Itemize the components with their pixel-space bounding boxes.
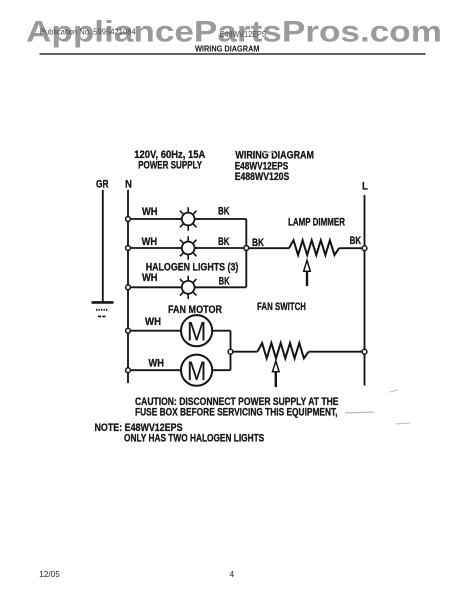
svg-text:GR: GR: [96, 178, 109, 190]
svg-text:12/05: 12/05: [39, 570, 60, 579]
svg-text:E488WV120S: E488WV120S: [235, 171, 290, 183]
wire lamp right bus: [245, 219, 247, 287]
svg-text:N: N: [125, 178, 132, 190]
wire dimmer left: [246, 247, 289, 249]
node motorbus-switch: [228, 349, 233, 354]
resistor fan switch: [257, 343, 308, 358]
node N-motor2: [126, 368, 131, 373]
svg-text:HALOGEN LIGHTS (3): HALOGEN LIGHTS (3): [146, 261, 239, 273]
fan motor M2: [181, 355, 212, 386]
wire motor right bus: [230, 331, 232, 371]
svg-text:WH: WH: [142, 272, 158, 284]
svg-text:L: L: [362, 181, 368, 193]
scan smudge marks: [263, 152, 410, 424]
svg-text:WH: WH: [149, 358, 165, 370]
wire motor rung 1: [128, 330, 231, 332]
svg-text:M: M: [187, 356, 207, 386]
svg-text:POWER SUPPLY: POWER SUPPLY: [138, 159, 202, 171]
svg-text:FUSE BOX BEFORE SERVICING THIS: FUSE BOX BEFORE SERVICING THIS EQUIPMENT…: [135, 407, 338, 419]
ground symbol: [92, 302, 114, 316]
node N-rung1: [126, 217, 131, 222]
svg-text:ONLY HAS TWO HALOGEN LIGHTS: ONLY HAS TWO HALOGEN LIGHTS: [124, 433, 265, 445]
halogen lamp 2: [177, 236, 200, 259]
wire N bus vertical: [127, 190, 129, 383]
svg-text:WIRING DIAGRAM: WIRING DIAGRAM: [195, 44, 260, 54]
dimmer wiper arrow: [304, 260, 311, 286]
wire halogen rung 1: [128, 218, 246, 220]
wire halogen rung 3: [128, 286, 246, 288]
halogen lamp 3: [177, 276, 200, 299]
svg-text:BK: BK: [218, 236, 230, 248]
svg-text:E48WV12EPS: E48WV12EPS: [220, 30, 267, 39]
node N-rung2: [126, 246, 131, 251]
svg-text:BK: BK: [218, 205, 230, 217]
wire motor rung 2: [128, 369, 231, 371]
node L-switch: [362, 349, 367, 354]
fan switch wiper arrow: [273, 361, 280, 387]
svg-text:WIRING DIAGRAM: WIRING DIAGRAM: [235, 149, 314, 161]
svg-text:WH: WH: [142, 236, 158, 248]
wire GR vertical: [102, 190, 104, 302]
svg-text:Publication No. 5995421084: Publication No. 5995421084: [40, 27, 137, 36]
resistor lamp dimmer: [289, 240, 339, 255]
svg-text:WH: WH: [142, 206, 158, 218]
svg-text:BK: BK: [219, 275, 230, 287]
wire L bus vertical: [364, 195, 366, 386]
fan motor M1: [181, 315, 212, 346]
svg-text:4: 4: [230, 569, 235, 579]
svg-text:WH: WH: [145, 316, 161, 328]
node N-rung3: [126, 285, 131, 290]
node N-motor1: [126, 328, 131, 333]
node L-dimmer: [362, 246, 367, 251]
header rule line: [40, 53, 426, 55]
svg-text:M: M: [187, 317, 207, 347]
halogen lamp 1: [177, 207, 200, 230]
svg-text:FAN SWITCH: FAN SWITCH: [257, 301, 306, 313]
node lampbus-dimmer: [244, 246, 249, 251]
wire fan switch left: [231, 351, 258, 353]
svg-text:BK: BK: [252, 237, 264, 249]
wire dimmer right: [339, 247, 365, 249]
wire halogen rung 2: [128, 247, 246, 249]
svg-text:LAMP DIMMER: LAMP DIMMER: [288, 217, 345, 229]
wire fan switch right: [309, 351, 365, 353]
svg-text:BK: BK: [350, 235, 362, 247]
